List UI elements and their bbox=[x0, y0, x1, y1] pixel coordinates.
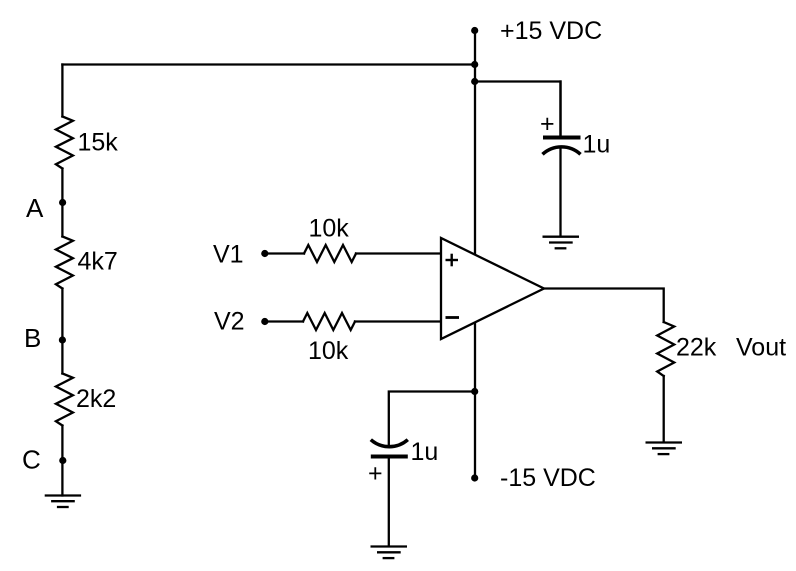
resistor R3 2k2 bbox=[56, 374, 73, 426]
node dot B bbox=[59, 336, 66, 343]
wire op-amp output bbox=[544, 289, 664, 323]
ground below capacitor C2 bbox=[371, 545, 408, 547]
wire 2k2 to ground node C bbox=[61, 426, 63, 496]
svg-text:C: C bbox=[22, 445, 41, 475]
svg-text:4k7: 4k7 bbox=[78, 248, 118, 276]
svg-text:V1: V1 bbox=[213, 241, 244, 269]
wire V+ rail vertical (passes behind op-amp) bbox=[474, 31, 476, 478]
svg-text:B: B bbox=[24, 323, 41, 353]
wire 22k to ground bbox=[663, 376, 665, 442]
resistor R5 10k (V2 input) bbox=[303, 313, 355, 330]
resistor R2 4k7 bbox=[56, 237, 73, 289]
capacitor C2 1u curved plate bbox=[371, 440, 408, 447]
op-amp U1 triangle bbox=[441, 238, 544, 339]
wire 10k to op-amp inverting input bbox=[355, 320, 441, 322]
resistor R4 10k (V1 input) bbox=[304, 245, 356, 262]
ground below node C bbox=[45, 494, 81, 496]
node dot C bbox=[59, 457, 66, 464]
wire 10k to op-amp noninverting input bbox=[356, 252, 441, 254]
node dot A bbox=[59, 199, 66, 206]
capacitor C2 1u flat plate bbox=[371, 455, 408, 459]
svg-text:+: + bbox=[368, 460, 383, 488]
node dot -15 VDC terminal bbox=[471, 474, 478, 481]
svg-text:+15 VDC: +15 VDC bbox=[500, 17, 602, 45]
wire C2 bottom plate to ground bbox=[388, 457, 390, 546]
node dot +15 VDC terminal bbox=[471, 27, 478, 34]
wire left divider top segment bbox=[61, 65, 63, 117]
wire 4k7 to 2k2 through node B bbox=[61, 289, 63, 374]
svg-text:Vout: Vout bbox=[736, 334, 786, 362]
ground below capacitor C1 bbox=[543, 236, 580, 238]
resistor R6 22k bbox=[657, 322, 674, 376]
resistor R1 15k bbox=[56, 117, 73, 169]
svg-text:10k: 10k bbox=[308, 337, 349, 365]
capacitor C1 1u curved plate bbox=[543, 147, 581, 154]
svg-text:-15 VDC: -15 VDC bbox=[500, 464, 596, 492]
svg-text:+: + bbox=[540, 110, 555, 138]
svg-text:2k2: 2k2 bbox=[76, 385, 116, 413]
wire C1 bottom plate to ground bbox=[559, 148, 561, 237]
svg-text:V2: V2 bbox=[214, 308, 245, 336]
node dot V2 terminal bbox=[261, 318, 268, 325]
node dot rail / C1 branch junction bbox=[471, 78, 478, 85]
svg-text:A: A bbox=[26, 193, 44, 223]
node dot rail / top-rail junction bbox=[471, 61, 478, 68]
svg-text:1u: 1u bbox=[583, 131, 611, 159]
svg-text:1u: 1u bbox=[411, 438, 439, 466]
node dot rail / C2 branch junction bbox=[471, 388, 478, 395]
wire branch to decoupling cap C1 bbox=[475, 82, 561, 136]
wire 15k to 4k7 through node A bbox=[61, 169, 63, 237]
op-amp minus input sign bbox=[446, 316, 460, 319]
ground below resistor R6 bbox=[646, 441, 683, 443]
node dot V1 terminal bbox=[261, 250, 268, 257]
svg-text:22k: 22k bbox=[676, 334, 717, 362]
wire top horizontal rail from divider to V+ rail bbox=[62, 63, 475, 65]
wire V1 input to 10k bbox=[266, 252, 304, 254]
wire C1 top plate lead bbox=[559, 82, 561, 137]
svg-text:10k: 10k bbox=[309, 215, 350, 243]
wire V2 input to 10k bbox=[266, 320, 303, 322]
capacitor C1 1u flat plate bbox=[543, 136, 581, 140]
wire branch to decoupling cap C2 bbox=[389, 392, 475, 447]
svg-text:15k: 15k bbox=[78, 129, 119, 157]
op-amp plus input sign bbox=[446, 254, 459, 267]
